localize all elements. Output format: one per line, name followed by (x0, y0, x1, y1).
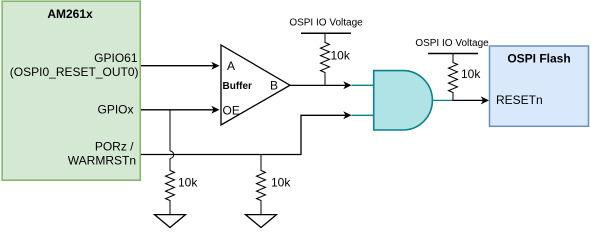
svg-text:A: A (227, 59, 235, 73)
svg-text:OE: OE (223, 103, 240, 117)
svg-text:AM261x: AM261x (47, 7, 93, 21)
svg-text:B: B (270, 78, 278, 92)
svg-text:WARMRSTn: WARMRSTn (68, 154, 136, 168)
svg-text:Buffer: Buffer (223, 81, 253, 92)
svg-text:OSPI IO Voltage: OSPI IO Voltage (289, 18, 363, 29)
svg-text:10k: 10k (461, 67, 481, 81)
svg-text:10k: 10k (331, 49, 351, 63)
svg-text:10k: 10k (178, 176, 198, 190)
svg-text:PORz /: PORz / (95, 140, 134, 154)
svg-text:GPIO61: GPIO61 (94, 51, 138, 65)
svg-text:OSPI Flash: OSPI Flash (507, 52, 570, 66)
svg-text:OSPI IO Voltage: OSPI IO Voltage (415, 38, 489, 49)
svg-text:RESETn: RESETn (496, 93, 543, 107)
svg-text:10k: 10k (271, 176, 291, 190)
svg-text:(OSPI0_RESET_OUT0): (OSPI0_RESET_OUT0) (10, 65, 139, 79)
svg-text:GPIOx: GPIOx (97, 103, 133, 117)
